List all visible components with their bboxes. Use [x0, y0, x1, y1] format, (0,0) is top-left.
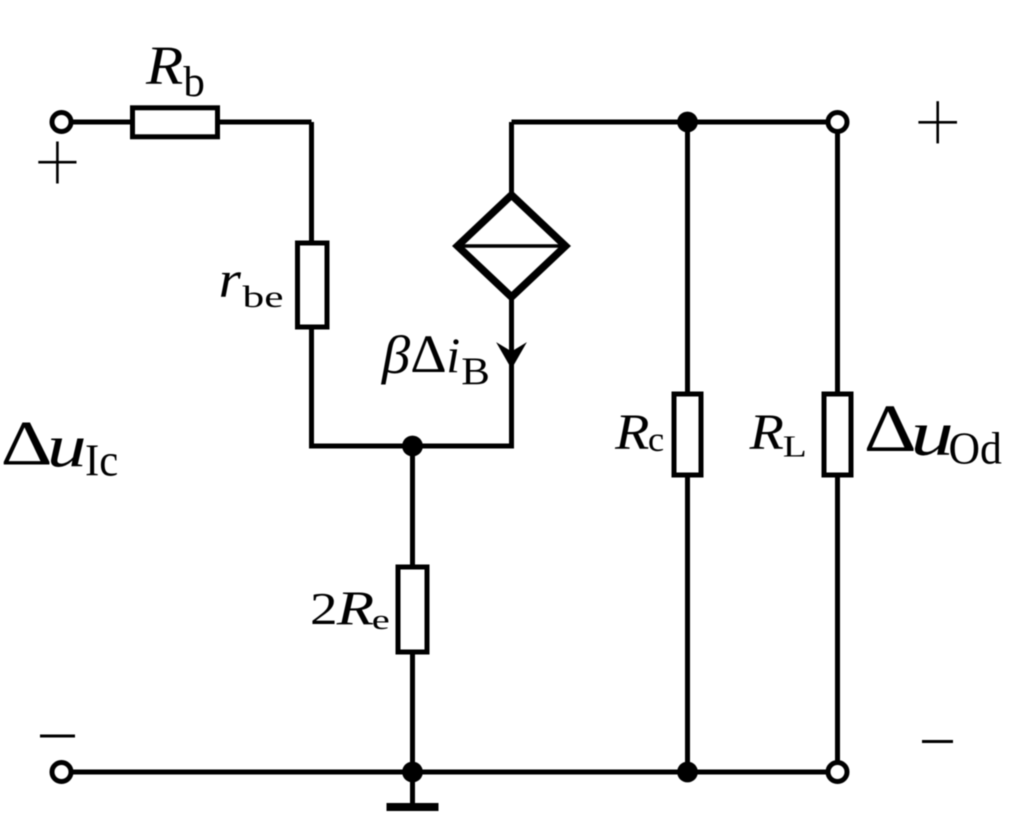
- svg-text:Δ: Δ: [864, 392, 917, 467]
- svg-text:R: R: [145, 35, 183, 97]
- svg-text:Δ: Δ: [1, 407, 53, 478]
- svg-text:L: L: [783, 429, 807, 464]
- svg-text:be: be: [243, 280, 284, 315]
- svg-text:R: R: [614, 403, 649, 460]
- svg-text:r: r: [219, 250, 242, 308]
- svg-text:Δ: Δ: [410, 324, 446, 383]
- svg-text:i: i: [446, 327, 460, 383]
- svg-text:β: β: [381, 325, 411, 384]
- svg-text:c: c: [648, 420, 664, 459]
- svg-text:B: B: [461, 349, 490, 393]
- svg-text:b: b: [183, 59, 205, 106]
- svg-text:e: e: [372, 604, 390, 636]
- svg-text:u: u: [911, 399, 954, 470]
- svg-text:Od: Od: [949, 422, 1002, 473]
- svg-text:R: R: [336, 581, 375, 635]
- svg-text:Ic: Ic: [85, 434, 118, 486]
- svg-text:R: R: [749, 403, 784, 460]
- svg-text:u: u: [47, 413, 87, 480]
- svg-text:2: 2: [310, 583, 338, 634]
